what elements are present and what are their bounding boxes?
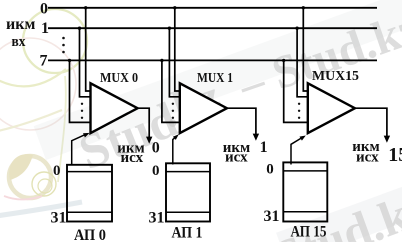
svg-text:MUX15: MUX15 xyxy=(312,68,359,83)
bus line 0 xyxy=(48,7,377,9)
junction bus0/MUX15 xyxy=(302,6,305,9)
block АП1 xyxy=(166,163,210,221)
svg-text:0: 0 xyxy=(266,162,274,178)
wire bus0 drop to MUX15 xyxy=(303,8,308,91)
watermark band 2 xyxy=(276,144,402,242)
wire АП15 to MUX15 select xyxy=(291,138,301,164)
logo pink arc xyxy=(0,38,76,130)
svg-text:1: 1 xyxy=(41,20,49,37)
svg-text:исх: исх xyxy=(225,150,248,166)
svg-text:31: 31 xyxy=(264,208,280,225)
svg-text:АП 1: АП 1 xyxy=(172,225,203,242)
logo ring bottom-left xyxy=(9,156,51,198)
logo big arc b xyxy=(0,110,62,131)
wire bus0 drop to MUX1 xyxy=(175,8,180,91)
svg-text:7: 7 xyxy=(40,53,48,70)
junction bus1/MUX15 xyxy=(295,27,298,30)
svg-text:31: 31 xyxy=(149,210,165,227)
wire bus1 drop to MUX0 xyxy=(80,28,91,97)
wire АП0 to MUX0 select xyxy=(72,134,86,164)
watermark band 1 xyxy=(34,0,402,160)
svg-text:исх: исх xyxy=(356,150,379,166)
svg-text:MUX 0: MUX 0 xyxy=(100,70,138,85)
svg-text:31: 31 xyxy=(51,210,67,227)
wire MUX1 output xyxy=(227,108,256,134)
arrowhead MUX15 output xyxy=(384,136,390,143)
wire bus7 drop to MUX1 xyxy=(162,60,180,122)
arrowhead АП15 select xyxy=(300,136,306,141)
ellipsis dots left xyxy=(62,37,65,40)
wire bus1 drop to MUX1 xyxy=(169,28,179,97)
wire bus7 drop to MUX15 xyxy=(284,60,308,122)
MUX0 input ellipsis xyxy=(81,103,83,105)
mux U15 triangle xyxy=(308,83,355,133)
svg-text:0: 0 xyxy=(40,1,48,18)
arrowhead MUX1 output xyxy=(253,134,259,141)
arrowhead АП0 select xyxy=(83,133,90,138)
junction bus0/MUX1 xyxy=(173,6,176,9)
logo ring top-left xyxy=(23,9,87,73)
bus line 1 xyxy=(48,27,377,29)
junction bus1/MUX1 xyxy=(168,27,171,30)
svg-text:0: 0 xyxy=(152,163,160,179)
svg-text:икм: икм xyxy=(6,16,35,33)
junction bus7/MUX1 xyxy=(160,59,163,62)
wire MUX0 output xyxy=(138,108,150,137)
svg-text:1: 1 xyxy=(260,139,268,156)
MUX1 input ellipsis xyxy=(172,103,174,105)
logo pink arc small xyxy=(4,196,42,200)
wire bus0 drop to MUX0 xyxy=(86,8,91,91)
mux U1 triangle xyxy=(180,83,227,133)
wire АП1 to MUX1 select xyxy=(173,137,175,164)
arrowhead MUX0 output xyxy=(146,137,152,144)
wire bus1 drop to MUX15 xyxy=(297,28,308,97)
svg-text:0: 0 xyxy=(152,140,160,157)
bus line 7 xyxy=(48,59,377,61)
svg-text:исх: исх xyxy=(120,150,143,166)
watermark logo arc top-left xyxy=(0,9,87,216)
junction bus7/MUX0 xyxy=(68,59,71,62)
svg-text:15: 15 xyxy=(388,144,402,166)
block АП0 xyxy=(67,165,112,222)
wire bus7 drop to MUX0 xyxy=(70,60,91,122)
junction bus0/MUX0 xyxy=(84,6,87,9)
logo big arc a xyxy=(0,69,66,86)
svg-text:0: 0 xyxy=(53,163,61,179)
junction bus1/MUX0 xyxy=(78,27,81,30)
logo stem xyxy=(58,76,66,182)
MUX15 input ellipsis xyxy=(298,103,300,105)
logo spiral arcs xyxy=(32,172,56,196)
svg-text:АП 15: АП 15 xyxy=(291,224,327,241)
block АП15 xyxy=(283,162,327,221)
logo swoosh band xyxy=(0,202,82,216)
svg-text:Stud.kz: Stud.kz xyxy=(268,179,402,242)
arrowhead АП1 select xyxy=(173,134,179,140)
mux U0 triangle xyxy=(91,83,138,133)
wire MUX15 output xyxy=(355,108,387,136)
logo leaf xyxy=(9,154,33,180)
junction bus7/MUX15 xyxy=(282,59,285,62)
svg-text:АП 0: АП 0 xyxy=(74,227,106,242)
svg-text:вх: вх xyxy=(12,34,26,50)
svg-text:MUX 1: MUX 1 xyxy=(197,70,233,85)
